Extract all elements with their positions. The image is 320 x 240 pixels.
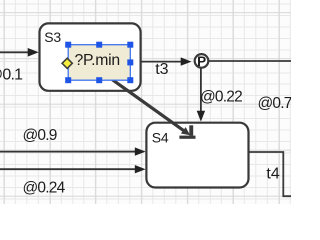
state S4 <box>146 123 248 188</box>
svg-text:@0.1: @0.1 <box>0 67 23 84</box>
drag cursor thick arrow from label to S4 <box>113 80 196 139</box>
selection handle bottom-right <box>127 77 133 83</box>
svg-text:P: P <box>197 54 206 69</box>
selection rect blue <box>68 45 130 80</box>
wire arrow 1 into S4 left <box>0 147 146 155</box>
svg-text:@0.7: @0.7 <box>258 95 292 112</box>
svg-text:@0.9: @0.9 <box>23 127 57 144</box>
svg-text:t4: t4 <box>266 166 279 183</box>
label P <box>197 54 206 69</box>
state S3 <box>40 23 141 90</box>
label @0.22 <box>200 89 242 106</box>
svg-text:?P.min: ?P.min <box>75 52 120 69</box>
selection handle top-mid <box>96 42 102 48</box>
wire t3 from S3 to P <box>141 57 192 65</box>
svg-text:@0.24: @0.24 <box>23 180 66 197</box>
label S3 <box>44 29 61 45</box>
label @0.7 <box>258 95 292 112</box>
svg-text:S3: S3 <box>44 29 61 45</box>
label box beige ?P.min <box>68 45 130 80</box>
label S4 <box>152 130 169 146</box>
selection handle top-left <box>65 42 71 48</box>
selection handle bottom-left <box>65 77 71 83</box>
selection handle bottom-mid <box>96 77 102 83</box>
wire from S4 right to edge <box>249 152 291 196</box>
label t3 <box>155 61 168 78</box>
selection handle right-mid <box>127 59 133 65</box>
wire arrow 2 into S4 left <box>0 165 146 173</box>
label @0.24 <box>23 180 66 197</box>
svg-text:t3: t3 <box>155 61 168 78</box>
svg-text:S4: S4 <box>152 130 169 146</box>
label ?P.min <box>75 52 120 69</box>
wire from P to right edge <box>209 60 291 62</box>
node P circle <box>195 54 209 68</box>
selection handle top-right <box>127 42 133 48</box>
svg-text:@0.22: @0.22 <box>200 89 242 106</box>
label @0.1 <box>0 67 23 84</box>
wire arrow into S3 left <box>0 48 39 57</box>
yellow diamond anchor <box>62 58 72 68</box>
label t4 <box>266 166 279 183</box>
wire from P down into S4 <box>197 68 205 121</box>
label @0.9 <box>23 127 57 144</box>
